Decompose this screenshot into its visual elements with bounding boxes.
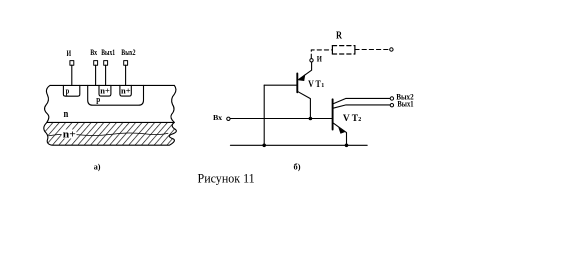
svg-text:Рисунок 11: Рисунок 11 bbox=[198, 171, 255, 185]
p contact region (И) bbox=[63, 85, 79, 96]
transistor VT2 second collector lead to Вых1 bbox=[333, 105, 391, 108]
terminal pad Вых2 bbox=[124, 61, 128, 66]
transistor VT1 (pnp) base bar bbox=[296, 73, 298, 92]
output terminal Вых1 bbox=[390, 104, 393, 107]
p-well region bbox=[88, 85, 144, 105]
wire: bottom rail bbox=[230, 144, 367, 146]
svg-text:R: R bbox=[336, 30, 342, 41]
svg-text:n: n bbox=[64, 108, 69, 120]
transistor VT2 (npn) base bar bbox=[332, 99, 334, 129]
dashed wire: И terminal up and to resistor R bbox=[311, 50, 332, 59]
svg-text:Вх: Вх bbox=[213, 113, 222, 122]
svg-text:n+: n+ bbox=[63, 129, 76, 141]
terminal И (fig b) bbox=[310, 59, 313, 62]
svg-text:б): б) bbox=[294, 161, 301, 171]
svg-text:V T1: V T1 bbox=[308, 79, 324, 89]
wire: Вх terminal to VT2 base bbox=[230, 118, 333, 120]
wire: И pad to p contact bbox=[71, 65, 73, 85]
right floating terminal bbox=[390, 48, 393, 51]
terminal pad Вх bbox=[94, 61, 98, 66]
output terminal Вых2 bbox=[390, 97, 393, 100]
dashed wire: resistor R to right terminal bbox=[355, 49, 390, 51]
resistor R body bbox=[332, 46, 355, 54]
wire: Вых2 pad to n+ region 2 bbox=[125, 65, 127, 85]
transistor VT1 collector lead bbox=[297, 91, 310, 118]
svg-text:а): а) bbox=[94, 161, 101, 171]
n+ region 1 (Вых1) bbox=[99, 85, 111, 96]
transistor VT2 emitter lead bbox=[333, 123, 347, 146]
svg-text:Вых2: Вых2 bbox=[121, 47, 135, 57]
transistor VT1 emitter arrowhead (pnp, pointing into base) bbox=[298, 74, 305, 81]
transistor VT2 collector lead to Вых2 bbox=[333, 98, 391, 104]
wire: Вых1 pad to n+ region 1 bbox=[105, 65, 107, 85]
n-substrate block outline (surface line + torn side edges) bbox=[45, 85, 176, 122]
svg-text:n+: n+ bbox=[100, 85, 110, 95]
transistor VT2 emitter arrowhead (npn, pointing out) bbox=[338, 127, 345, 134]
svg-text:Вх: Вх bbox=[90, 47, 97, 57]
n+ region 2 (Вых2) bbox=[120, 85, 131, 96]
svg-text:V T2: V T2 bbox=[343, 113, 361, 123]
transistor VT1 emitter lead bbox=[299, 62, 312, 80]
terminal pad И bbox=[70, 61, 74, 66]
wire: VT1 base lead bbox=[264, 84, 297, 86]
svg-text:И: И bbox=[67, 48, 72, 58]
wire: Вх pad to p-well surface bbox=[95, 65, 97, 85]
svg-text:p: p bbox=[66, 85, 70, 95]
white backing for n+ band label bbox=[62, 130, 77, 139]
svg-text:Вых1: Вых1 bbox=[101, 47, 115, 57]
n+ buried layer (hatched band) bbox=[44, 122, 177, 145]
terminal pad Вых1 bbox=[104, 61, 108, 66]
junction: feedback wire to bottom rail bbox=[262, 144, 266, 148]
junction: VT2 emitter to bottom rail bbox=[345, 144, 349, 148]
svg-text:И: И bbox=[317, 55, 323, 64]
input terminal Вх bbox=[227, 117, 230, 120]
wire: vertical feedback wire bbox=[263, 85, 265, 145]
junction: VT1 collector to Вх wire bbox=[309, 117, 313, 121]
svg-text:Вых1: Вых1 bbox=[397, 98, 413, 108]
freehand mid squiggle inside buried layer bbox=[49, 133, 168, 136]
svg-text:n+: n+ bbox=[121, 85, 131, 95]
